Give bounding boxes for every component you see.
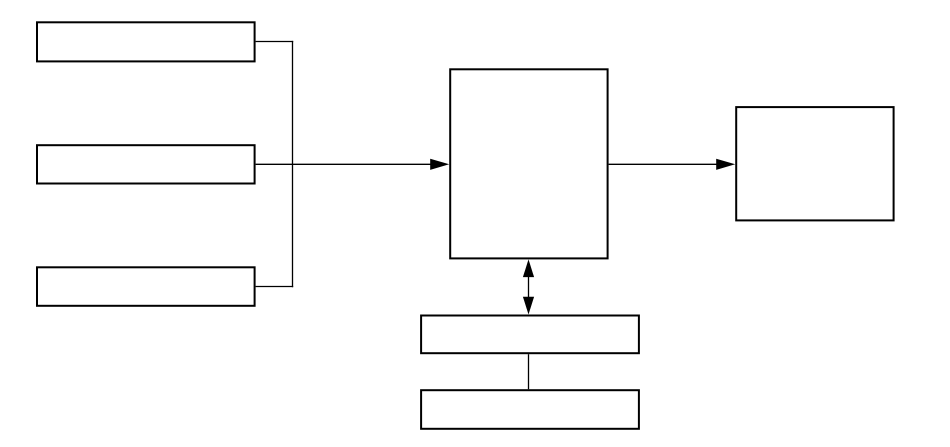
- wire bus vertical: [292, 41, 294, 287]
- wire from box C to bus: [256, 286, 294, 288]
- box G (lower block 2): [421, 390, 639, 429]
- wire between box F and box G: [528, 354, 530, 389]
- arrow from box D to box E: [609, 159, 736, 170]
- box B (middle-left input block): [37, 145, 255, 183]
- double-headed arrow between box D and box F: [523, 259, 534, 314]
- box F (lower block 1): [421, 316, 639, 354]
- box D (central processing block): [450, 69, 607, 258]
- box E (right output block): [736, 107, 893, 220]
- arrow from box B to box D: [256, 159, 450, 170]
- wire from box A to bus: [256, 41, 294, 43]
- box A (top-left input block): [37, 22, 255, 61]
- box C (bottom-left input block): [37, 267, 255, 306]
